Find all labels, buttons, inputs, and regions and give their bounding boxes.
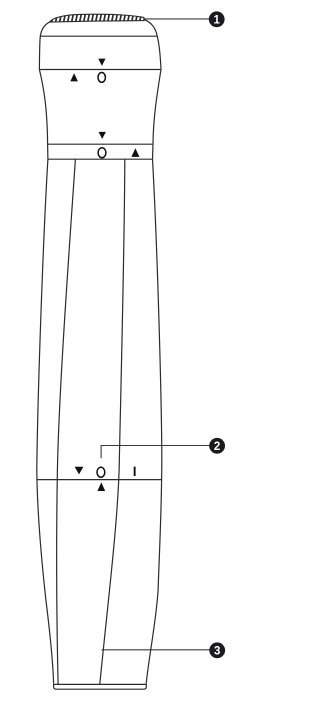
svg-text:2: 2 (214, 441, 220, 453)
svg-text:3: 3 (214, 645, 220, 657)
svg-text:1: 1 (213, 14, 220, 26)
